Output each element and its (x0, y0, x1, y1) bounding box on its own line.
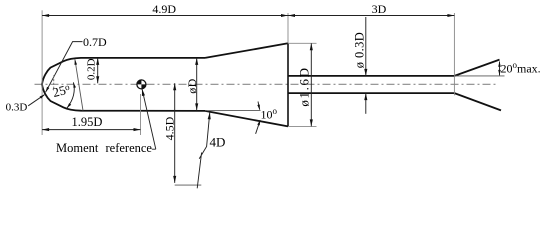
dimension 4.9D / 3D top line (42, 15, 454, 17)
svg-text:0.3D: 0.3D (6, 101, 28, 113)
svg-text:Moment reference: Moment reference (56, 141, 152, 155)
svg-text:4.5D: 4.5D (162, 116, 176, 140)
bottom reference line (175, 184, 202, 186)
svg-text:4.9D: 4.9D (152, 2, 176, 16)
angle 10 deg: horizontal reference (205, 109, 261, 111)
extension line at nozzle exit (x=454) (453, 13, 455, 95)
svg-text:3D: 3D (372, 2, 387, 16)
plume upper boundary (454, 60, 499, 76)
dimension dia 1.6D (288, 42, 317, 44)
body outline: nose + cylinder (42, 58, 205, 111)
svg-text:0.7D: 0.7D (83, 35, 107, 49)
svg-text:1.95D: 1.95D (72, 115, 103, 129)
moment reference leader (142, 89, 156, 149)
nose tangent station line (75, 59, 83, 110)
sting top line (288, 75, 454, 77)
moment reference symbol (137, 80, 146, 89)
centerline (axis of symmetry, dash-dot) (35, 83, 497, 85)
angle 20 deg max: horizontal reference (454, 75, 504, 77)
dimension 0.2D (97, 58, 99, 83)
model base line (287, 43, 289, 126)
svg-text:20omax.: 20omax. (501, 60, 541, 76)
dimension dia 0.3D (sting) (365, 17, 367, 76)
svg-text:ø 0.3D: ø 0.3D (353, 32, 367, 68)
svg-text:0.2D: 0.2D (85, 58, 97, 80)
flare top line (205, 43, 288, 58)
dimension dia D (196, 58, 198, 111)
dimension 4.5D vertical (174, 83, 176, 183)
extension line at base (x=288) (287, 13, 289, 44)
flare bottom line (205, 111, 288, 127)
dimension 1.95D (42, 129, 140, 131)
nose tip arc center crosshair (53, 75, 55, 89)
extension line at nose (x=44) (41, 10, 43, 135)
svg-text:ø1.6D: ø1.6D (297, 66, 312, 106)
svg-text:4D: 4D (210, 134, 226, 149)
20 deg double arrow (499, 62, 501, 76)
angle 10 arrows (258, 102, 260, 110)
angle 25 arc with arrows (67, 82, 74, 108)
extension line at moment reference (x=141.7) (140, 94, 142, 135)
svg-text:øD: øD (185, 78, 199, 93)
plume lower boundary (454, 93, 501, 110)
leader 4D with jog (197, 112, 210, 188)
sting bottom line (288, 92, 454, 94)
